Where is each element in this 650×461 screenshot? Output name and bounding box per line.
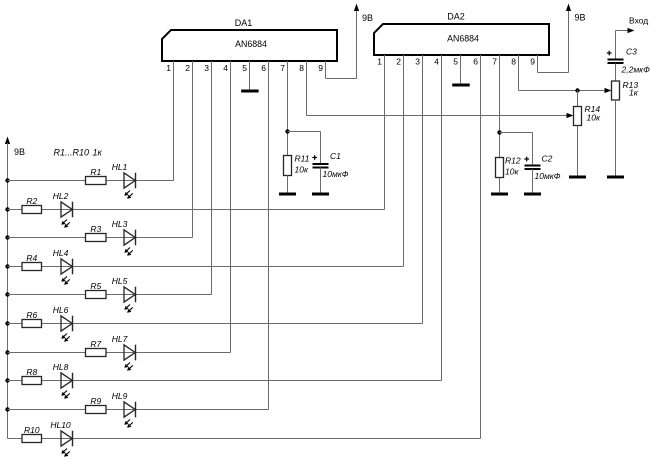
svg-text:R4: R4 bbox=[26, 253, 37, 263]
op-amp/IC DA2 body bbox=[374, 24, 549, 55]
svg-text:HL6: HL6 bbox=[53, 305, 69, 315]
svg-text:HL4: HL4 bbox=[53, 248, 69, 258]
svg-text:HL10: HL10 bbox=[50, 420, 71, 430]
node junction bus row 6 bbox=[5, 321, 9, 325]
input arrow bbox=[628, 28, 635, 33]
power arrow +9V (DA1) bbox=[354, 4, 359, 12]
wire row 6 horizontal bbox=[8, 323, 423, 325]
label 9V (DA2) bbox=[575, 13, 586, 23]
wire R14 top bbox=[577, 91, 579, 107]
resistor R5 bbox=[86, 291, 107, 299]
svg-text:2: 2 bbox=[396, 57, 401, 67]
wire row 3 horizontal bbox=[8, 237, 193, 239]
label HL6 bbox=[53, 305, 69, 315]
pin number 3 (DA2) bbox=[415, 57, 420, 67]
wire DA2 pin 9 lead bbox=[537, 55, 539, 73]
resistor R11 bbox=[284, 156, 292, 176]
power arrow +9V (DA2) bbox=[566, 4, 571, 12]
svg-text:9: 9 bbox=[530, 57, 535, 67]
wire DA1 pin9 to +9V bbox=[326, 10, 357, 79]
svg-text:R8: R8 bbox=[26, 367, 37, 377]
LED HL9 bbox=[124, 402, 136, 428]
wire C1 top bbox=[320, 132, 322, 165]
svg-text:9В: 9В bbox=[362, 13, 373, 23]
wire DA1 pin 6 lead bbox=[268, 61, 270, 410]
capacitor C3 bbox=[607, 51, 624, 63]
label R4 bbox=[26, 253, 37, 263]
pin number 7 (DA2) bbox=[492, 57, 497, 67]
node junction bus row 5 bbox=[5, 292, 9, 296]
label HL4 bbox=[53, 248, 69, 258]
svg-text:4: 4 bbox=[434, 57, 439, 67]
wire DA1 pin 1 lead bbox=[173, 61, 175, 181]
pin number 9 (DA2) bbox=[530, 57, 535, 67]
node junction bus row 8 bbox=[5, 378, 9, 382]
pin number 5 (DA1) bbox=[242, 63, 247, 73]
svg-text:R5: R5 bbox=[90, 281, 101, 291]
power arrow +9V left bus bbox=[5, 137, 10, 145]
wire row 5 horizontal bbox=[8, 294, 212, 296]
resistor R12 bbox=[496, 158, 504, 178]
svg-text:R9: R9 bbox=[90, 396, 101, 406]
potentiometer R13 bbox=[612, 81, 620, 100]
node junction bus row 3 bbox=[5, 235, 9, 239]
LED HL4 bbox=[61, 259, 73, 285]
wire row 2 horizontal bbox=[8, 209, 385, 211]
svg-text:4: 4 bbox=[223, 63, 228, 73]
wire DA1 pin 3 lead bbox=[211, 61, 213, 295]
svg-text:3: 3 bbox=[204, 63, 209, 73]
pin number 2 (DA1) bbox=[185, 63, 190, 73]
wire DA1 pin 7 lead bbox=[287, 61, 289, 156]
label C2 bbox=[535, 154, 561, 182]
LED HL2 bbox=[61, 202, 73, 228]
svg-text:C1: C1 bbox=[330, 151, 341, 161]
svg-text:9В: 9В bbox=[575, 13, 586, 23]
wire DA1 pin 5 lead bbox=[249, 61, 251, 90]
node junction bus row 9 bbox=[5, 407, 9, 411]
capacitor C2 bbox=[524, 157, 540, 169]
svg-text:5: 5 bbox=[242, 63, 247, 73]
pin number 9 (DA1) bbox=[318, 63, 323, 73]
wire DA2 pin 4 lead bbox=[441, 55, 443, 381]
svg-text:6: 6 bbox=[261, 63, 266, 73]
label HL10 bbox=[50, 420, 71, 430]
svg-text:1: 1 bbox=[377, 57, 382, 67]
pin number 1 (DA2) bbox=[377, 57, 382, 67]
wire C2 to ground bbox=[532, 169, 534, 194]
label C1 bbox=[323, 151, 349, 179]
wire DA2 pin 5 lead bbox=[460, 55, 462, 84]
label R5 bbox=[90, 281, 101, 291]
label 9V (DA1) bbox=[362, 13, 373, 23]
svg-text:9В: 9В bbox=[14, 147, 25, 157]
wire R13 to ground bbox=[615, 100, 617, 177]
wire DA1 pin 9 lead bbox=[325, 61, 327, 79]
op-amp/IC DA1 body bbox=[162, 30, 337, 61]
label R6 bbox=[26, 310, 37, 320]
LED HL8 bbox=[61, 373, 73, 399]
svg-text:2,2мкФ: 2,2мкФ bbox=[621, 65, 650, 75]
svg-text:HL2: HL2 bbox=[53, 191, 69, 201]
svg-text:8: 8 bbox=[511, 57, 516, 67]
node junction bus row 7 bbox=[5, 350, 9, 354]
wire R14 to ground bbox=[577, 126, 579, 178]
resistor R2 bbox=[22, 206, 42, 214]
wiper arrow into R13 bbox=[605, 88, 612, 93]
label R1...R10 common value bbox=[54, 148, 103, 158]
wire DA1 pin 8 lead bbox=[306, 61, 308, 116]
svg-text:R12: R12 bbox=[505, 156, 521, 166]
LED HL3 bbox=[124, 230, 136, 256]
label HL2 bbox=[53, 191, 69, 201]
label AN6884 (DA1) bbox=[235, 39, 267, 49]
svg-text:R6: R6 bbox=[26, 310, 37, 320]
node junction bus row 1 bbox=[5, 178, 9, 182]
svg-text:R7: R7 bbox=[90, 339, 101, 349]
svg-text:1к: 1к bbox=[93, 148, 103, 158]
label HL3 bbox=[112, 219, 128, 229]
wire DA2 pin 7 lead bbox=[499, 55, 501, 158]
wire input terminal bbox=[616, 30, 629, 32]
svg-text:HL3: HL3 bbox=[112, 219, 128, 229]
wire DA2 pin 8 lead bbox=[518, 55, 520, 91]
wire row 4 horizontal bbox=[8, 266, 404, 268]
resistor R8 bbox=[22, 377, 42, 385]
ground (DA2 pin 5) bbox=[452, 84, 470, 87]
LED HL1 bbox=[124, 173, 136, 199]
wire DA2 pin 6 lead bbox=[480, 55, 482, 439]
node junction R13 wiper / R14 top bbox=[575, 88, 579, 92]
svg-text:10к: 10к bbox=[505, 167, 519, 177]
ground (DA1 pin 5) bbox=[241, 90, 259, 93]
ground (R12) bbox=[491, 193, 508, 196]
ground (R11) bbox=[279, 193, 296, 196]
svg-text:DA2: DA2 bbox=[447, 12, 465, 22]
svg-text:10мкФ: 10мкФ bbox=[323, 169, 349, 179]
wire DA1 pin 4 lead bbox=[230, 61, 232, 353]
svg-text:10к: 10к bbox=[295, 165, 309, 175]
svg-text:R1...R10: R1...R10 bbox=[54, 148, 90, 158]
node junction bus row 2 bbox=[5, 207, 9, 211]
wire DA1 pin 2 lead bbox=[192, 61, 194, 238]
resistor R1 bbox=[86, 177, 107, 185]
label R9 bbox=[90, 396, 101, 406]
svg-text:AN6884: AN6884 bbox=[235, 39, 267, 49]
svg-text:10мкФ: 10мкФ bbox=[535, 171, 561, 181]
label R8 bbox=[26, 367, 37, 377]
resistor R3 bbox=[86, 234, 107, 242]
svg-text:R3: R3 bbox=[90, 224, 101, 234]
svg-text:HL7: HL7 bbox=[112, 334, 128, 344]
svg-text:1: 1 bbox=[166, 63, 171, 73]
wire DA1 pin7 to C1 bbox=[288, 131, 321, 133]
wiper arrow into R14 bbox=[567, 113, 574, 118]
label C3 bbox=[621, 47, 650, 75]
pin number 7 (DA1) bbox=[280, 63, 285, 73]
wire R11 to ground bbox=[287, 176, 289, 195]
resistor R9 bbox=[86, 406, 107, 414]
svg-text:2: 2 bbox=[185, 63, 190, 73]
node junction bus row 4 bbox=[5, 264, 9, 268]
label input (Vhod) bbox=[629, 16, 648, 26]
svg-text:R2: R2 bbox=[26, 196, 37, 206]
capacitor C1 bbox=[312, 155, 328, 167]
label R12 bbox=[505, 156, 521, 177]
svg-text:8: 8 bbox=[299, 63, 304, 73]
svg-text:7: 7 bbox=[492, 57, 497, 67]
svg-text:HL9: HL9 bbox=[112, 391, 128, 401]
svg-text:Вход: Вход bbox=[629, 16, 648, 26]
label R10 bbox=[24, 425, 40, 435]
resistor R4 bbox=[22, 263, 42, 271]
pin number 6 (DA2) bbox=[473, 57, 478, 67]
wire DA2 pin 3 lead bbox=[422, 55, 424, 324]
svg-text:9: 9 bbox=[318, 63, 323, 73]
pin number 3 (DA1) bbox=[204, 63, 209, 73]
label R13 bbox=[623, 80, 639, 98]
label HL5 bbox=[112, 276, 128, 286]
label R14 bbox=[585, 104, 601, 123]
svg-text:3: 3 bbox=[415, 57, 420, 67]
ground (R14) bbox=[569, 176, 586, 179]
wire C3 to R13 bbox=[615, 64, 617, 82]
pin number 2 (DA2) bbox=[396, 57, 401, 67]
ground (C1) bbox=[312, 193, 329, 196]
svg-text:R11: R11 bbox=[295, 154, 310, 164]
label R3 bbox=[90, 224, 101, 234]
svg-text:DA1: DA1 bbox=[235, 18, 253, 28]
LED HL10 bbox=[61, 431, 73, 457]
wire row 7 horizontal bbox=[8, 352, 231, 354]
LED HL5 bbox=[124, 287, 136, 313]
ground (R13) bbox=[607, 176, 624, 179]
label HL1 bbox=[112, 162, 128, 172]
resistor R6 bbox=[22, 320, 42, 328]
wire row 8 horizontal bbox=[8, 380, 442, 382]
label 9V left bbox=[14, 147, 25, 157]
svg-text:C2: C2 bbox=[542, 154, 553, 164]
resistor R7 bbox=[86, 349, 107, 357]
wire left bus vertical bbox=[7, 143, 9, 439]
svg-text:10к: 10к bbox=[587, 113, 601, 123]
LED HL6 bbox=[61, 316, 73, 342]
wire DA2 pin 2 lead bbox=[403, 55, 405, 267]
svg-text:HL1: HL1 bbox=[112, 162, 128, 172]
wire DA2 pin 1 lead bbox=[384, 55, 386, 210]
label R11 bbox=[295, 154, 310, 175]
svg-text:6: 6 bbox=[473, 57, 478, 67]
svg-text:C3: C3 bbox=[626, 47, 637, 57]
svg-text:1к: 1к bbox=[629, 88, 639, 98]
pin number 1 (DA1) bbox=[166, 63, 171, 73]
LED HL7 bbox=[124, 345, 136, 371]
label HL7 bbox=[112, 334, 128, 344]
wire DA1 pin8 to R14 wiper bbox=[307, 115, 568, 117]
pin number 4 (DA2) bbox=[434, 57, 439, 67]
wire row 1 horizontal bbox=[8, 180, 174, 182]
node junction DA2 pin7 / R12 / C2 bbox=[497, 130, 501, 134]
wire row 9 horizontal bbox=[8, 409, 269, 411]
wire R12 to ground bbox=[499, 178, 501, 195]
pin number 8 (DA2) bbox=[511, 57, 516, 67]
wire DA2 pin7 to C2 bbox=[500, 132, 533, 134]
label R2 bbox=[26, 196, 37, 206]
svg-text:R1: R1 bbox=[90, 167, 101, 177]
svg-text:R10: R10 bbox=[24, 425, 40, 435]
resistor R10 bbox=[22, 435, 42, 443]
pin number 8 (DA1) bbox=[299, 63, 304, 73]
label R1 bbox=[90, 167, 101, 177]
pin number 4 (DA1) bbox=[223, 63, 228, 73]
label DA1 bbox=[235, 18, 253, 28]
potentiometer R14 bbox=[574, 107, 582, 126]
label R7 bbox=[90, 339, 101, 349]
wire row 10 horizontal bbox=[8, 438, 481, 440]
svg-text:HL5: HL5 bbox=[112, 276, 128, 286]
pin number 5 (DA2) bbox=[453, 57, 458, 67]
wire C1 to ground bbox=[320, 168, 322, 195]
svg-text:HL8: HL8 bbox=[53, 362, 69, 372]
wire C2 top bbox=[532, 133, 534, 167]
node junction DA1 pin7 / R11 / C1 bbox=[285, 129, 289, 133]
label HL8 bbox=[53, 362, 69, 372]
label DA2 bbox=[447, 12, 465, 22]
wire DA2 pin9 to +9V bbox=[538, 10, 569, 73]
pin number 6 (DA1) bbox=[261, 63, 266, 73]
label HL9 bbox=[112, 391, 128, 401]
svg-text:AN6884: AN6884 bbox=[447, 34, 479, 44]
wire input to C3 bbox=[615, 31, 617, 61]
ground (C2) bbox=[524, 193, 541, 196]
label AN6884 (DA2) bbox=[447, 34, 479, 44]
svg-text:7: 7 bbox=[280, 63, 285, 73]
svg-text:5: 5 bbox=[453, 57, 458, 67]
wire DA2 pin8 to R13 wiper bbox=[519, 90, 606, 92]
